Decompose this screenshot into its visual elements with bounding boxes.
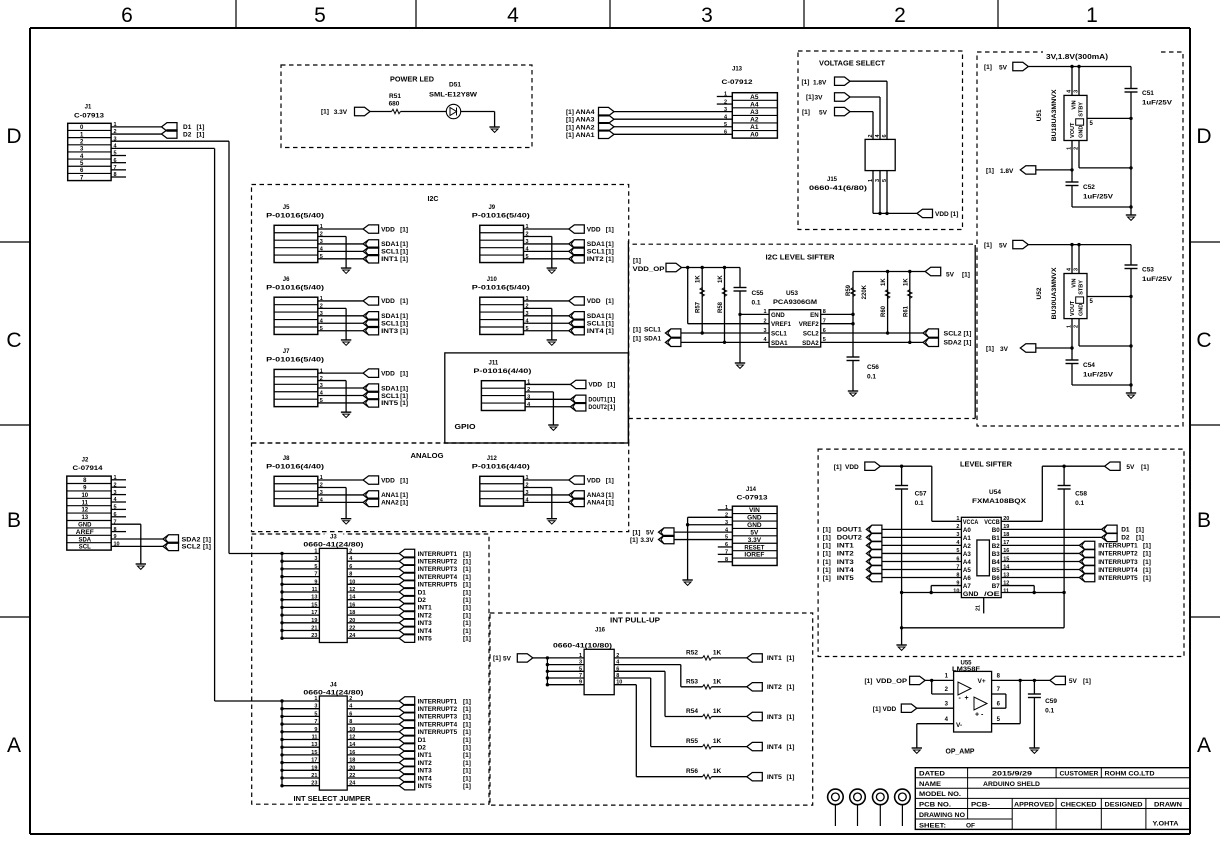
svg-text:DOUT1: DOUT1: [837, 527, 862, 534]
svg-text:[1]: [1]: [951, 211, 959, 218]
svg-text:[1]: [1]: [1143, 543, 1151, 550]
svg-text:SCL1: SCL1: [381, 249, 399, 256]
svg-text:B5: B5: [992, 567, 1000, 574]
svg-text:3: 3: [701, 4, 713, 27]
svg-text:INTERRUPT4: INTERRUPT4: [418, 574, 458, 581]
svg-text:C-07913: C-07913: [74, 113, 104, 120]
svg-text:R60: R60: [881, 305, 887, 317]
svg-text:[1]: [1]: [197, 124, 205, 131]
svg-text:R56: R56: [686, 768, 698, 775]
svg-text:[1]: [1]: [984, 242, 992, 249]
svg-text:BU18UA3MNVX: BU18UA3MNVX: [1051, 89, 1058, 142]
svg-text:11: 11: [312, 587, 318, 593]
svg-text:SCL1: SCL1: [381, 393, 399, 400]
svg-text:0660-41(24/80): 0660-41(24/80): [303, 689, 363, 696]
svg-text:D51: D51: [449, 82, 461, 89]
svg-text:A4: A4: [750, 101, 759, 108]
svg-text:STBY: STBY: [1079, 102, 1085, 117]
svg-text:SCL1: SCL1: [771, 331, 787, 338]
svg-text:VREF1: VREF1: [771, 321, 792, 328]
svg-text:P-01016(5/40): P-01016(5/40): [266, 357, 324, 364]
svg-text:6: 6: [349, 564, 352, 570]
svg-text:[1]: [1]: [606, 328, 614, 335]
svg-text:B1: B1: [992, 535, 1000, 542]
svg-text:U52: U52: [1036, 287, 1043, 299]
svg-text:0.1: 0.1: [867, 374, 876, 381]
svg-text:18: 18: [349, 610, 355, 616]
svg-text:A5: A5: [963, 567, 971, 574]
svg-text:0660-41(6/80): 0660-41(6/80): [809, 185, 867, 192]
svg-text:INT2: INT2: [837, 551, 854, 558]
svg-text:SDA1: SDA1: [381, 241, 399, 248]
svg-text:[1]: [1]: [633, 530, 641, 537]
svg-text:+: +: [965, 695, 969, 702]
svg-text:[1]: [1]: [802, 79, 810, 86]
svg-text:B: B: [1197, 509, 1211, 532]
svg-text:VDD: VDD: [381, 298, 395, 305]
svg-text:[1]: [1]: [606, 313, 614, 320]
svg-text:J12: J12: [487, 456, 498, 462]
svg-text:C: C: [1196, 329, 1211, 352]
svg-text:3: 3: [314, 704, 317, 710]
svg-text:ANA2: ANA2: [576, 124, 595, 131]
svg-text:6: 6: [882, 134, 888, 137]
svg-text:SDA2: SDA2: [182, 536, 201, 543]
svg-text:[1]: [1]: [633, 327, 641, 334]
svg-text:INT3: INT3: [767, 714, 782, 721]
svg-text:[1]: [1]: [984, 64, 992, 71]
svg-text:[1]: [1]: [802, 109, 810, 116]
svg-text:VCCB: VCCB: [984, 519, 1000, 526]
svg-text:INTERRUPT1: INTERRUPT1: [418, 551, 458, 558]
svg-text:PCB NO.: PCB NO.: [919, 801, 951, 808]
svg-text:U51: U51: [1036, 109, 1043, 121]
svg-text:D2: D2: [183, 131, 192, 138]
svg-text:GND: GND: [1079, 126, 1085, 138]
svg-text:[1]: [1]: [400, 500, 408, 507]
svg-text:B0: B0: [992, 527, 1000, 534]
svg-text:B6: B6: [992, 575, 1000, 582]
svg-text:B4: B4: [992, 559, 1000, 566]
svg-text:J16: J16: [595, 628, 606, 634]
svg-text:[1]: [1]: [463, 566, 471, 573]
svg-text:20: 20: [349, 765, 355, 771]
svg-text:[1]: [1]: [463, 783, 471, 790]
svg-text:5: 5: [314, 564, 317, 570]
svg-text:[1]: [1]: [1083, 678, 1091, 685]
svg-text:[1]: [1]: [463, 636, 471, 643]
svg-text:1: 1: [314, 696, 317, 702]
svg-text:INT2: INT2: [418, 760, 432, 767]
svg-text:20: 20: [349, 618, 355, 624]
svg-text:[1]: [1]: [1143, 575, 1151, 582]
svg-text:ANA4: ANA4: [587, 500, 605, 507]
svg-text:J11: J11: [489, 360, 499, 366]
svg-text:BU30UA3MNVX: BU30UA3MNVX: [1051, 267, 1058, 320]
svg-text:14: 14: [349, 595, 356, 601]
svg-text:J13: J13: [732, 67, 743, 73]
svg-text:[1]: [1]: [400, 298, 408, 305]
svg-text:1K: 1K: [713, 649, 722, 656]
svg-text:[1]: [1]: [823, 543, 831, 550]
svg-text:10: 10: [953, 588, 959, 594]
svg-text:OF: OF: [966, 822, 975, 829]
svg-text:8: 8: [349, 572, 352, 578]
svg-text:VDD: VDD: [381, 477, 395, 484]
svg-text:INT2: INT2: [418, 612, 432, 619]
svg-text:[1]: [1]: [400, 400, 408, 407]
svg-text:SCL1: SCL1: [587, 249, 605, 256]
svg-text:5V: 5V: [819, 110, 828, 117]
svg-text:C59: C59: [1045, 698, 1057, 705]
svg-text:5V: 5V: [646, 530, 655, 537]
svg-text:3: 3: [579, 660, 582, 666]
svg-text:INT5: INT5: [381, 400, 398, 407]
svg-text:[1]: [1]: [463, 628, 471, 635]
svg-text:C-07912: C-07912: [722, 79, 753, 86]
svg-text:INT4: INT4: [837, 567, 854, 574]
svg-text:SDA1: SDA1: [381, 385, 399, 392]
svg-text:[1]: [1]: [463, 698, 471, 705]
svg-text:3.3V: 3.3V: [748, 537, 762, 544]
svg-text:J1: J1: [85, 105, 92, 111]
svg-text:13: 13: [311, 742, 317, 748]
svg-text:D1: D1: [1121, 527, 1130, 534]
svg-text:[1]: [1]: [463, 589, 471, 596]
svg-text:VDD_OP: VDD_OP: [633, 266, 666, 273]
svg-text:VDD: VDD: [587, 477, 601, 484]
svg-text:V-: V-: [956, 722, 962, 729]
svg-text:ANA4: ANA4: [576, 109, 595, 116]
svg-text:INT4: INT4: [418, 775, 432, 782]
svg-text:P-01016(4/40): P-01016(4/40): [472, 464, 530, 471]
svg-text:[1]: [1]: [566, 124, 574, 131]
svg-text:ARDUINO SHELD: ARDUINO SHELD: [983, 781, 1040, 788]
svg-text:15: 15: [311, 750, 317, 756]
svg-text:[1]: [1]: [606, 256, 614, 263]
svg-text:GND: GND: [771, 312, 785, 319]
svg-text:16: 16: [349, 750, 355, 756]
svg-text:INT SELECT JUMPER: INT SELECT JUMPER: [294, 796, 371, 803]
svg-text:14: 14: [349, 742, 356, 748]
svg-text:[1]: [1]: [1141, 464, 1149, 471]
svg-text:[1]: [1]: [865, 678, 873, 685]
svg-text:[1]: [1]: [463, 605, 471, 612]
svg-text:SCL1: SCL1: [644, 327, 661, 334]
svg-text:[1]: [1]: [633, 336, 641, 343]
svg-text:A2: A2: [963, 543, 971, 550]
svg-text:VOLTAGE SELECT: VOLTAGE SELECT: [819, 61, 886, 68]
svg-text:1.8V: 1.8V: [813, 80, 827, 87]
svg-text:VCCA: VCCA: [963, 519, 979, 526]
svg-text:19: 19: [311, 618, 317, 624]
svg-text:SML-E12Y8W: SML-E12Y8W: [429, 92, 478, 99]
svg-text:D2: D2: [418, 597, 427, 604]
svg-text:5: 5: [314, 4, 326, 27]
svg-text:[1]: [1]: [463, 737, 471, 744]
svg-text:[1]: [1]: [1143, 567, 1151, 574]
svg-text:INTERRUPT5: INTERRUPT5: [1098, 575, 1138, 582]
svg-text:INTERRUPT3: INTERRUPT3: [418, 714, 458, 721]
svg-text:C54: C54: [1083, 362, 1095, 369]
svg-text:[1]: [1]: [400, 492, 408, 499]
svg-text:1K: 1K: [713, 768, 722, 775]
svg-text:24: 24: [349, 633, 356, 639]
svg-text:INT5: INT5: [418, 636, 432, 643]
svg-text:INT PULL-UP: INT PULL-UP: [610, 618, 660, 625]
svg-text:[1]: [1]: [463, 574, 471, 581]
svg-text:POWER LED: POWER LED: [390, 77, 434, 84]
svg-text:[1]: [1]: [463, 729, 471, 736]
svg-text:DOUT1: DOUT1: [588, 397, 607, 404]
svg-text:ANA1: ANA1: [576, 132, 595, 139]
svg-text:3: 3: [314, 556, 317, 562]
svg-text:C52: C52: [1083, 184, 1095, 191]
svg-text:SCL1: SCL1: [587, 321, 605, 328]
svg-text:Y.OHTA: Y.OHTA: [1153, 821, 1179, 828]
svg-text:[1]: [1]: [606, 298, 614, 305]
svg-text:P-01016(4/40): P-01016(4/40): [266, 464, 324, 471]
svg-text:D: D: [1196, 125, 1211, 148]
svg-text:A7: A7: [963, 583, 971, 590]
svg-text:[1]: [1]: [463, 745, 471, 752]
svg-text:VDD: VDD: [935, 211, 949, 218]
svg-text:VOUT: VOUT: [1070, 300, 1076, 316]
svg-text:DRAWN: DRAWN: [1154, 801, 1182, 808]
svg-text:DESIGNED: DESIGNED: [1105, 801, 1143, 808]
svg-text:J14: J14: [746, 487, 757, 493]
svg-text:NAME: NAME: [919, 781, 942, 788]
svg-text:DRAWING NO: DRAWING NO: [919, 812, 965, 819]
svg-text:[1]: [1]: [400, 385, 408, 392]
svg-text:[1]: [1]: [463, 559, 471, 566]
svg-text:SDA1: SDA1: [771, 340, 788, 347]
svg-text:18: 18: [349, 758, 355, 764]
svg-text:0660-41(10/80): 0660-41(10/80): [553, 643, 612, 650]
svg-text:C56: C56: [867, 364, 879, 371]
svg-text:INTERRUPT1: INTERRUPT1: [418, 698, 458, 705]
svg-text:A6: A6: [963, 575, 971, 582]
svg-text:D2: D2: [1121, 535, 1130, 542]
svg-text:P-01016(5/40): P-01016(5/40): [472, 284, 530, 291]
svg-text:INT1: INT1: [381, 256, 398, 263]
svg-text:[1]: [1]: [400, 477, 408, 484]
svg-text:INT4: INT4: [418, 628, 432, 635]
svg-text:5V: 5V: [946, 272, 955, 279]
svg-text:3V: 3V: [815, 95, 824, 102]
svg-text:DATED: DATED: [919, 771, 945, 778]
svg-text:ANA1: ANA1: [381, 492, 399, 499]
svg-text:ROHM CO.LTD: ROHM CO.LTD: [1105, 771, 1155, 778]
svg-text:A2: A2: [750, 116, 759, 123]
svg-text:[1]: [1]: [633, 258, 641, 265]
svg-text:[1]: [1]: [607, 382, 615, 389]
svg-text:[1]: [1]: [463, 721, 471, 728]
svg-text:[1]: [1]: [400, 370, 408, 377]
svg-text:INTERRUPT5: INTERRUPT5: [418, 582, 458, 589]
svg-text:SCL1: SCL1: [381, 321, 399, 328]
svg-text:6: 6: [349, 711, 352, 717]
svg-text:CUSTOMER: CUSTOMER: [1060, 771, 1099, 778]
svg-text:INTERRUPT2: INTERRUPT2: [1098, 551, 1138, 558]
svg-text:[1]: [1]: [1136, 535, 1144, 542]
svg-text:B3: B3: [992, 551, 1000, 558]
svg-text:[1]: [1]: [787, 744, 795, 751]
svg-text:INT4: INT4: [587, 328, 604, 335]
svg-text:ANALOG: ANALOG: [411, 453, 445, 460]
svg-text:[1]: [1]: [630, 537, 638, 544]
svg-text:A1: A1: [963, 535, 971, 542]
svg-text:[1]: [1]: [400, 328, 408, 335]
svg-text:21: 21: [311, 773, 317, 779]
svg-text:C55: C55: [752, 290, 764, 297]
svg-text:7: 7: [314, 572, 317, 578]
svg-text:24: 24: [349, 781, 356, 787]
svg-text:[1]: [1]: [400, 393, 408, 400]
svg-text:INT2: INT2: [587, 256, 604, 263]
svg-text:1K: 1K: [713, 708, 722, 715]
svg-text:P-01016(5/40): P-01016(5/40): [266, 284, 324, 291]
svg-text:GPIO: GPIO: [455, 424, 477, 431]
svg-text:D1: D1: [418, 589, 427, 596]
svg-text:B2: B2: [992, 543, 1000, 550]
svg-text:GND: GND: [78, 523, 92, 529]
svg-text:SCL2: SCL2: [803, 331, 819, 338]
svg-text:SDA2: SDA2: [944, 340, 962, 347]
svg-text:D: D: [6, 125, 21, 148]
svg-text:11: 11: [82, 500, 89, 506]
svg-text:1uF/25V: 1uF/25V: [1083, 194, 1114, 201]
svg-text:11: 11: [1003, 588, 1009, 594]
svg-text:VDD_OP: VDD_OP: [876, 678, 908, 685]
svg-text:7: 7: [579, 673, 582, 679]
svg-text:A4: A4: [963, 559, 971, 566]
svg-text:AREF: AREF: [76, 530, 94, 536]
svg-text:INT2: INT2: [767, 684, 782, 691]
svg-text:[1]: [1]: [962, 272, 970, 279]
svg-text:MODEL NO.: MODEL NO.: [919, 791, 961, 798]
svg-text:[1]: [1]: [1143, 559, 1151, 566]
svg-text:0.1: 0.1: [1075, 500, 1084, 507]
svg-text:C: C: [6, 329, 21, 352]
svg-text:[1]: [1]: [203, 544, 211, 551]
svg-text:[1]: [1]: [463, 582, 471, 589]
svg-text:J15: J15: [827, 177, 838, 183]
svg-text:P-01016(5/40): P-01016(5/40): [472, 213, 530, 220]
svg-text:R61: R61: [903, 305, 909, 317]
svg-text:2: 2: [894, 4, 906, 27]
svg-text:PCB-: PCB-: [971, 801, 990, 808]
svg-text:INTERRUPT2: INTERRUPT2: [418, 706, 458, 713]
svg-text:A: A: [7, 734, 21, 757]
svg-text:+: +: [975, 712, 979, 719]
svg-text:VREF2: VREF2: [799, 321, 820, 328]
svg-text:R51: R51: [389, 93, 401, 100]
svg-text:17: 17: [311, 610, 317, 616]
svg-text:GND: GND: [747, 522, 762, 529]
svg-text:23: 23: [311, 781, 317, 787]
svg-text:U53: U53: [786, 290, 798, 297]
svg-text:9: 9: [314, 579, 317, 585]
svg-text:[1]: [1]: [606, 500, 614, 507]
svg-text:A0: A0: [963, 527, 971, 534]
svg-text:P-01016(4/40): P-01016(4/40): [473, 368, 531, 375]
svg-text:INT1: INT1: [418, 752, 432, 759]
svg-text:I2C: I2C: [428, 196, 439, 203]
svg-text:INT1: INT1: [418, 605, 432, 612]
svg-text:[1]: [1]: [400, 256, 408, 263]
svg-text:INT3: INT3: [837, 559, 854, 566]
svg-text:0.1: 0.1: [915, 500, 924, 507]
svg-text:C-07914: C-07914: [73, 465, 103, 472]
svg-text:680: 680: [389, 101, 400, 108]
svg-text:1uF/25V: 1uF/25V: [1083, 372, 1114, 379]
svg-text:[1]: [1]: [606, 241, 614, 248]
svg-text:1K: 1K: [718, 275, 724, 283]
svg-text:2015/9/29: 2015/9/29: [992, 771, 1033, 778]
svg-text:SDA1: SDA1: [587, 241, 605, 248]
svg-text:[1]: [1]: [606, 492, 614, 499]
svg-text:EN: EN: [810, 312, 819, 319]
svg-text:12: 12: [349, 735, 355, 741]
svg-text:VDD: VDD: [588, 382, 602, 389]
svg-text:[1]: [1]: [606, 226, 614, 233]
svg-text:9: 9: [579, 680, 582, 686]
svg-text:INTERRUPT3: INTERRUPT3: [1098, 559, 1138, 566]
svg-text:5V: 5V: [1126, 464, 1135, 471]
svg-text:[1]: [1]: [823, 535, 831, 542]
svg-text:ANA3: ANA3: [587, 492, 605, 499]
svg-text:1uF/25V: 1uF/25V: [1142, 276, 1173, 283]
svg-text:[1]: [1]: [787, 774, 795, 781]
svg-text:APPROVED: APPROVED: [1014, 801, 1054, 808]
svg-text:SCL2: SCL2: [944, 330, 962, 337]
svg-text:R59: R59: [846, 284, 852, 296]
svg-text:12: 12: [81, 508, 88, 514]
svg-text:J10: J10: [487, 277, 498, 283]
svg-text:8: 8: [349, 719, 352, 725]
svg-text:INT5: INT5: [767, 774, 782, 781]
svg-text:3V,1.8V(300mA): 3V,1.8V(300mA): [1046, 54, 1108, 61]
svg-text:[1]: [1]: [606, 321, 614, 328]
svg-text:[1]: [1]: [463, 597, 471, 604]
svg-text:[1]: [1]: [463, 768, 471, 775]
svg-text:P-01016(5/40): P-01016(5/40): [266, 213, 324, 220]
svg-text:1: 1: [1086, 4, 1098, 27]
svg-text:3: 3: [1074, 268, 1080, 271]
svg-text:10: 10: [349, 579, 355, 585]
svg-text:[1]: [1]: [787, 655, 795, 662]
svg-text:[1]: [1]: [606, 477, 614, 484]
svg-text:[1]: [1]: [463, 752, 471, 759]
svg-text:J3: J3: [330, 535, 337, 541]
svg-text:3.3V: 3.3V: [334, 109, 348, 116]
svg-text:1K: 1K: [713, 738, 722, 745]
svg-text:[1]: [1]: [493, 655, 501, 662]
svg-text:[1]: [1]: [986, 167, 994, 174]
svg-text:5V: 5V: [999, 65, 1008, 72]
svg-text:9: 9: [314, 727, 317, 733]
svg-text:15: 15: [311, 602, 317, 608]
svg-text:SDA1: SDA1: [381, 313, 399, 320]
svg-text:INT5: INT5: [418, 783, 432, 790]
svg-text:[1]: [1]: [203, 536, 211, 543]
svg-text:LEVEL SIFTER: LEVEL SIFTER: [960, 462, 1012, 469]
svg-text:ANA3: ANA3: [576, 117, 595, 124]
svg-text:A1: A1: [750, 124, 759, 131]
svg-text:SCL2: SCL2: [182, 544, 201, 551]
svg-text:5V: 5V: [999, 243, 1008, 250]
